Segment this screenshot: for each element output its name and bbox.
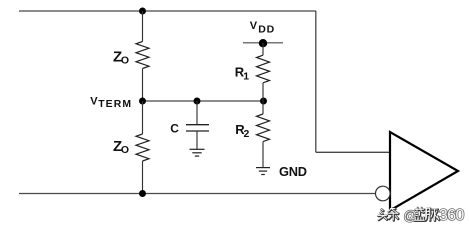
glyph 条 — [389, 208, 399, 220]
resistor Z_O lower zigzag — [136, 134, 149, 161]
wire from top rail to Z_O upper — [142, 11, 144, 42]
node dot V_TERM left — [139, 98, 146, 105]
glyph 豚 — [426, 209, 439, 221]
node junction dot top rail — [139, 8, 146, 15]
svg-text:O: O — [121, 144, 129, 156]
svg-text:V: V — [250, 20, 258, 32]
resistor R1 zigzag — [257, 55, 270, 83]
svg-text:DD: DD — [258, 24, 275, 36]
ground symbol below R2 — [256, 168, 270, 175]
wire to op-amp non-inverting input — [316, 151, 390, 153]
watermark 头条@蓝豚360 — [378, 207, 465, 224]
V_DD supply bar — [243, 42, 283, 44]
resistor R2 zigzag — [257, 114, 270, 142]
glyph 头 — [379, 210, 388, 221]
svg-text:C: C — [170, 122, 179, 136]
svg-text:O: O — [121, 54, 129, 66]
svg-text:1: 1 — [243, 70, 249, 82]
capacitor C top plate — [186, 124, 209, 126]
svg-text:GND: GND — [279, 164, 307, 179]
capacitor C bottom plate — [186, 130, 209, 132]
node dot capacitor tap — [194, 98, 201, 105]
resistor Z_O upper zigzag — [136, 42, 149, 69]
wire R2 to ground — [262, 142, 264, 168]
wire junction to R2 — [262, 101, 264, 114]
wire V_TERM horizontal — [143, 100, 264, 102]
ground symbol below capacitor — [190, 149, 205, 156]
svg-text:2: 2 — [244, 128, 250, 140]
wire top horizontal rail — [19, 10, 316, 12]
glyph 蓝 — [415, 208, 425, 221]
wire Z_O lower top lead — [142, 101, 144, 134]
wire V_DD to R1 — [262, 43, 264, 55]
svg-text:TERM: TERM — [98, 99, 132, 110]
node junction dot bottom rail — [139, 190, 146, 197]
wire capacitor bottom lead — [196, 131, 198, 149]
svg-text:V: V — [90, 96, 98, 108]
node dot V_DD — [259, 39, 267, 47]
wire capacitor top lead — [196, 101, 198, 125]
op-amp U1 triangle — [390, 132, 458, 211]
node dot R1-R2 junction — [260, 98, 267, 105]
wire R1 to junction — [262, 83, 264, 101]
wire right vertical drop to op-amp — [315, 11, 317, 152]
inverting input bubble — [376, 186, 391, 201]
wire bottom horizontal rail — [19, 193, 375, 195]
wire Z_O lower bottom lead — [142, 161, 144, 194]
svg-text:360: 360 — [439, 207, 464, 224]
wire from Z_O upper to V_TERM node — [142, 69, 144, 102]
